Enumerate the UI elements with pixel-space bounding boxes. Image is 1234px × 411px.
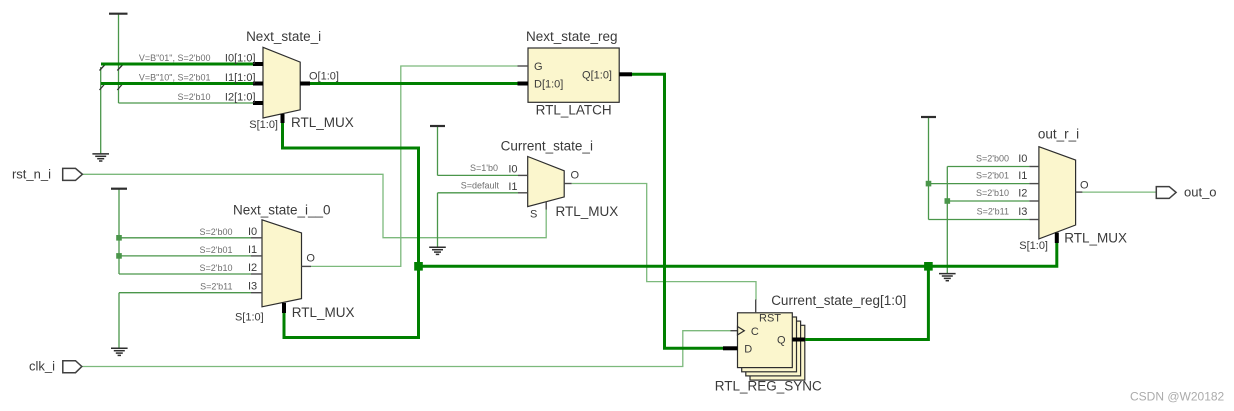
- wire I2 of Next_state_i__0: [119, 273, 251, 275]
- svg-text:I1: I1: [248, 244, 257, 256]
- latch Next_state_reg: [526, 29, 619, 118]
- wire I0 of Current_state_i: [438, 174, 519, 176]
- junction dot I2 out_r_i: [945, 198, 951, 204]
- svg-text:out_o: out_o: [1184, 185, 1217, 200]
- bus Current_state horizontal: [419, 242, 1057, 266]
- junction dot I0: [116, 235, 122, 241]
- power P4: [921, 116, 936, 118]
- ground G4 stem: [946, 167, 948, 274]
- pin O: [1076, 191, 1083, 193]
- mux Next_state_i__0: [233, 203, 354, 321]
- ground G1: [92, 154, 109, 161]
- wire I3 of Next_state_i__0: [119, 292, 251, 294]
- junction dot I1: [116, 253, 122, 259]
- svg-text:S[1:0]: S[1:0]: [1019, 240, 1048, 252]
- pin I0: [251, 237, 262, 239]
- junction dot bus left: [414, 262, 423, 271]
- pin D[1:0]: [518, 82, 529, 86]
- diagonal tap marks: [100, 64, 107, 71]
- svg-text:I0[1:0]: I0[1:0]: [225, 53, 256, 65]
- port rst_n_i: [63, 168, 83, 180]
- svg-text:O: O: [306, 253, 315, 265]
- svg-text:Current_state_reg[1:0]: Current_state_reg[1:0]: [771, 293, 906, 308]
- svg-text:I3: I3: [248, 281, 257, 293]
- power P1: [109, 13, 128, 15]
- pin I1[1:0]: [253, 82, 263, 86]
- pin S[1:0]: [282, 303, 286, 313]
- mux out_r_i: [1038, 126, 1127, 245]
- pin I2: [1029, 200, 1039, 202]
- svg-text:O: O: [571, 170, 580, 182]
- svg-text:S: S: [530, 208, 537, 220]
- bus I0[1:0] of Next_state_i: [101, 63, 254, 66]
- wire I0 of Next_state_i__0: [119, 237, 251, 239]
- ground G2 stem: [118, 293, 120, 349]
- pin I2[1:0]: [253, 101, 263, 105]
- svg-text:I2: I2: [1018, 188, 1027, 200]
- svg-text:Q: Q: [777, 334, 786, 346]
- pin O[1:0]: [300, 82, 310, 86]
- pin I0[1:0]: [253, 62, 263, 66]
- svg-text:S=2'b01: S=2'b01: [976, 171, 1009, 181]
- wire I2 of out_r_i: [947, 200, 1029, 202]
- svg-text:O[1:0]: O[1:0]: [309, 71, 339, 83]
- svg-text:S=2'b01: S=2'b01: [200, 245, 233, 255]
- pin S[1:0]: [281, 114, 285, 123]
- svg-text:I0: I0: [508, 164, 517, 176]
- wire clk_i net: port to register C: [82, 331, 731, 367]
- pin I1: [251, 255, 262, 257]
- svg-text:Next_state_reg: Next_state_reg: [526, 29, 618, 44]
- port out_o: [1156, 187, 1176, 199]
- mux Current_state_i: [501, 138, 619, 219]
- svg-text:O: O: [1080, 180, 1089, 192]
- svg-text:I1: I1: [1018, 170, 1027, 182]
- pin S: [545, 202, 547, 210]
- svg-text:S=1'b0: S=1'b0: [470, 163, 498, 173]
- wire out_o net: [1082, 191, 1156, 193]
- power P4 stem: [928, 117, 930, 220]
- pin Q[1:0]: [619, 72, 632, 76]
- svg-text:RTL_LATCH: RTL_LATCH: [536, 103, 612, 118]
- power P2: [111, 188, 127, 190]
- pin I0: [518, 174, 528, 176]
- wire I1 of out_r_i: [929, 183, 1030, 185]
- svg-text:I0: I0: [1018, 153, 1027, 165]
- svg-text:I1[1:0]: I1[1:0]: [225, 72, 256, 84]
- pin Q: [792, 338, 805, 342]
- pin D: [723, 346, 738, 350]
- wire Current_state_i.O to register RST: [572, 184, 756, 301]
- bus select net S[1:0]: [283, 122, 419, 338]
- wire I2 of Next_state_i: [119, 102, 254, 104]
- svg-text:I1: I1: [508, 181, 517, 193]
- wire I0 of out_r_i: [947, 166, 1029, 168]
- svg-text:RTL_REG_SYNC: RTL_REG_SYNC: [715, 379, 822, 394]
- ground G3 stem: [437, 193, 439, 248]
- junction dot bus right: [924, 262, 933, 271]
- pin O: [564, 183, 571, 185]
- svg-text:rst_n_i: rst_n_i: [12, 167, 51, 182]
- pin I0: [1029, 166, 1039, 168]
- svg-text:Next_state_i__0: Next_state_i__0: [233, 203, 331, 218]
- bus latch Q to register D: [631, 74, 724, 348]
- svg-text:Next_state_i: Next_state_i: [246, 29, 321, 44]
- ground G3: [429, 247, 446, 254]
- pin I3: [1029, 219, 1039, 221]
- wire I1 of Current_state_i: [438, 192, 519, 194]
- bus register Q up to bus: [804, 266, 928, 339]
- register Current_state_reg[1:0]: [715, 293, 907, 394]
- svg-text:I0: I0: [248, 226, 257, 238]
- svg-text:Current_state_i: Current_state_i: [501, 138, 593, 153]
- svg-text:D: D: [744, 344, 752, 356]
- wire I1 of Next_state_i__0: [119, 255, 251, 257]
- wire rst_n_i net: port to S of Current_state_i: [82, 174, 546, 237]
- ground G4: [939, 274, 956, 281]
- svg-text:S=2'b00: S=2'b00: [976, 154, 1009, 164]
- svg-text:S=2'b00: S=2'b00: [200, 227, 233, 237]
- ground G2: [111, 348, 128, 355]
- bus Next_state_i.O to latch D: [309, 82, 518, 85]
- pin I1: [518, 192, 528, 194]
- port clk_i: [63, 361, 82, 373]
- svg-text:S=2'b11: S=2'b11: [200, 282, 232, 292]
- pin I3: [251, 292, 262, 294]
- mux Next_state_i: [246, 29, 354, 130]
- svg-text:S=2'b10: S=2'b10: [178, 92, 211, 102]
- svg-text:RTL_MUX: RTL_MUX: [1064, 231, 1127, 246]
- svg-text:I2: I2: [248, 262, 257, 274]
- pin I1: [1029, 183, 1039, 185]
- pin S[1:0]: [1055, 233, 1059, 243]
- pin O: [302, 265, 312, 267]
- wire Next_state_i__0.O to latch G: [311, 66, 518, 266]
- wire I3 of out_r_i: [929, 219, 1030, 221]
- svg-text:S=2'b11: S=2'b11: [977, 207, 1009, 217]
- svg-text:D[1:0]: D[1:0]: [534, 79, 563, 91]
- power P1 stem: [118, 14, 120, 103]
- svg-text:out_r_i: out_r_i: [1038, 126, 1079, 141]
- svg-text:S[1:0]: S[1:0]: [235, 312, 264, 324]
- svg-text:G: G: [534, 61, 543, 73]
- power P3 stem: [437, 126, 439, 175]
- junction dot I1 out_r_i: [926, 181, 932, 187]
- svg-text:clk_i: clk_i: [29, 359, 55, 374]
- svg-text:S=2'b10: S=2'b10: [976, 188, 1009, 198]
- svg-text:Q[1:0]: Q[1:0]: [582, 70, 612, 82]
- svg-text:RTL_MUX: RTL_MUX: [291, 115, 354, 130]
- svg-text:S=default: S=default: [461, 181, 500, 191]
- svg-text:RTL_MUX: RTL_MUX: [292, 305, 355, 320]
- svg-text:RTL_MUX: RTL_MUX: [556, 204, 619, 219]
- svg-text:S=2'b10: S=2'b10: [200, 263, 233, 273]
- svg-text:I2[1:0]: I2[1:0]: [225, 92, 256, 104]
- power P3: [430, 125, 445, 127]
- pin G: [518, 65, 529, 67]
- pin C (clock): [731, 330, 738, 332]
- svg-text:CSDN @W20182: CSDN @W20182: [1130, 390, 1225, 404]
- svg-text:I3: I3: [1018, 206, 1027, 218]
- svg-text:V=B"01", S=2'b00: V=B"01", S=2'b00: [139, 53, 211, 63]
- power P2 stem: [118, 189, 120, 274]
- svg-text:S[1:0]: S[1:0]: [249, 119, 278, 131]
- pin I2: [251, 273, 262, 275]
- svg-text:V=B"10", S=2'b01: V=B"10", S=2'b01: [139, 73, 211, 83]
- svg-text:C: C: [751, 326, 759, 338]
- bus I1[1:0] of Next_state_i: [101, 82, 254, 85]
- ground G1 stem: [100, 67, 102, 154]
- svg-text:RST: RST: [759, 313, 781, 325]
- pin RST: [755, 300, 757, 313]
